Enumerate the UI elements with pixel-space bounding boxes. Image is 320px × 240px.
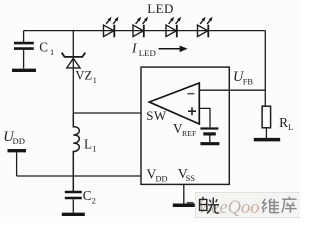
wire: V_SS pin to ground — [183, 184, 185, 203]
svg-text:C: C — [83, 188, 92, 203]
svg-text:1: 1 — [93, 75, 97, 85]
ground under RL — [254, 138, 280, 142]
IC box U1 — [141, 67, 229, 184]
LED D4 — [198, 17, 213, 38]
svg-text:C: C — [39, 39, 48, 54]
svg-text:REF: REF — [182, 129, 197, 138]
caption dash — [187, 202, 194, 204]
svg-text:SS: SS — [186, 174, 196, 183]
reference source V_REF — [200, 129, 218, 143]
svg-text:SW: SW — [146, 108, 167, 123]
watermark glyph KU — [282, 197, 297, 213]
supply terminal bar U_DD — [8, 149, 27, 152]
svg-text:VZ: VZ — [75, 69, 92, 83]
svg-text:1: 1 — [50, 47, 54, 57]
wire: plus input to reference — [199, 108, 210, 127]
resistor RL — [262, 106, 271, 128]
ground under C1 — [12, 69, 36, 72]
svg-text:FB: FB — [243, 78, 254, 87]
wire: left drop from top rail to C1 — [23, 31, 25, 43]
wire: top rail from C1 corner to right corner — [24, 30, 266, 32]
wire: from U_DD bar down — [16, 152, 18, 176]
svg-text:LED: LED — [147, 1, 173, 16]
wire: SW pin wire from zener branch to IC box — [73, 112, 141, 114]
wire: right vertical rail down to RL — [264, 31, 266, 107]
current arrow — [159, 48, 181, 50]
svg-text:1: 1 — [92, 144, 96, 154]
wire: zener branch vertical axis — [72, 31, 74, 113]
ground under C2 — [62, 213, 85, 216]
plus input mark — [188, 107, 196, 115]
watermark glyph WEI — [262, 199, 279, 213]
svg-text:L: L — [288, 122, 293, 132]
svg-text:L: L — [84, 136, 92, 151]
LED D3 — [166, 17, 181, 38]
ground under V_SS — [173, 204, 195, 208]
svg-text:LED: LED — [139, 48, 156, 58]
minus input mark — [187, 93, 194, 95]
watermark panel — [196, 193, 302, 218]
wire: bottom rail to IC box — [17, 175, 141, 177]
svg-text:DD: DD — [13, 136, 25, 146]
capacitor C2 — [65, 192, 82, 213]
zener diode VZ1 — [62, 53, 86, 68]
caption glyph BAI (white) — [200, 197, 207, 211]
capacitor C1 — [14, 43, 34, 68]
svg-text:R: R — [279, 115, 288, 130]
LED D1 — [104, 17, 119, 38]
LED D2 — [133, 17, 148, 38]
caption glyph GUANG (light) — [207, 197, 219, 213]
wire: feedback (minus input) to U_FB node — [199, 89, 265, 91]
ground under V_REF — [200, 142, 219, 145]
inductor L1 — [73, 113, 79, 191]
svg-text:DD: DD — [156, 175, 168, 184]
wire: RL to ground — [265, 128, 267, 138]
svg-text:2: 2 — [92, 195, 96, 205]
op-amp comparator — [149, 83, 199, 124]
